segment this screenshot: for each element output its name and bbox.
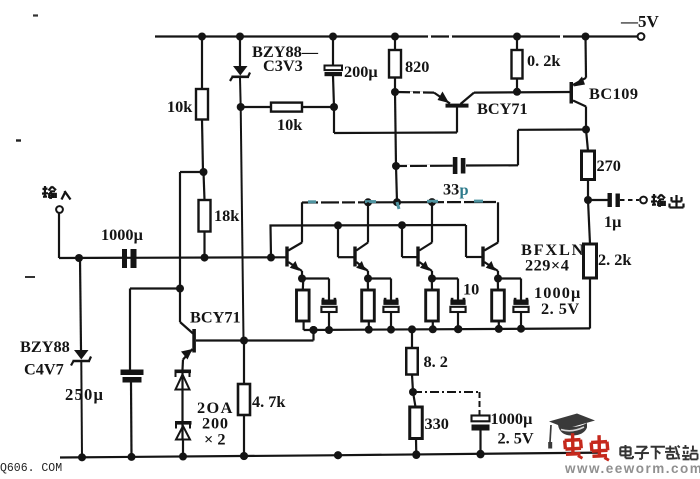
svg-text:1μ: 1μ bbox=[604, 212, 622, 231]
svg-text:BCY71: BCY71 bbox=[190, 308, 241, 327]
svg-text:× 2: × 2 bbox=[204, 430, 226, 449]
svg-text:330: 330 bbox=[425, 414, 449, 433]
svg-text:2. 2k: 2. 2k bbox=[598, 250, 632, 269]
svg-text:10k: 10k bbox=[167, 97, 193, 116]
svg-text:270: 270 bbox=[597, 156, 621, 175]
svg-text:0. 2k: 0. 2k bbox=[527, 51, 561, 70]
svg-text:2. 5V: 2. 5V bbox=[498, 429, 534, 448]
svg-text:1000μ: 1000μ bbox=[491, 409, 534, 428]
svg-text:C4V7: C4V7 bbox=[24, 360, 64, 379]
svg-text:p: p bbox=[460, 180, 469, 199]
svg-text:229×4: 229×4 bbox=[525, 256, 569, 275]
svg-text:4. 7k: 4. 7k bbox=[252, 392, 286, 411]
svg-text:—5V: —5V bbox=[620, 12, 660, 31]
svg-text:10k: 10k bbox=[277, 115, 303, 134]
svg-text:10: 10 bbox=[463, 280, 479, 299]
svg-text:2. 5V: 2. 5V bbox=[541, 299, 580, 318]
svg-text:200μ: 200μ bbox=[344, 62, 378, 81]
svg-text:BCY71: BCY71 bbox=[477, 99, 528, 118]
svg-text:www.eeworm.com: www.eeworm.com bbox=[564, 461, 700, 474]
svg-text:1000μ: 1000μ bbox=[101, 225, 144, 244]
svg-text:8. 2: 8. 2 bbox=[424, 352, 448, 371]
svg-text:33: 33 bbox=[443, 180, 459, 199]
svg-text:C3V3: C3V3 bbox=[263, 56, 303, 75]
svg-text:18k: 18k bbox=[214, 206, 240, 225]
svg-text:250μ: 250μ bbox=[65, 385, 104, 404]
svg-text:BZY88: BZY88 bbox=[20, 337, 70, 356]
svg-text:Q606. COM: Q606. COM bbox=[0, 462, 62, 474]
svg-text:BC109: BC109 bbox=[589, 84, 639, 103]
svg-text:820: 820 bbox=[405, 57, 429, 76]
